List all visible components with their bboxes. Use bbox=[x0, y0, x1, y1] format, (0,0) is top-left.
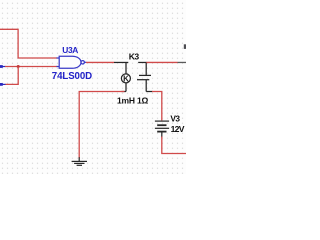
relay K3 contact bbox=[137, 62, 153, 91]
wire: net to upper gate input bbox=[0, 29, 57, 58]
wire: branch down to second pin bbox=[5, 67, 18, 85]
svg-text:K: K bbox=[123, 75, 129, 84]
svg-text:K3: K3 bbox=[129, 52, 140, 62]
battery V3 bbox=[155, 121, 169, 137]
wire: contact bottom to battery top bbox=[152, 92, 162, 121]
svg-text:1mH 1Ω: 1mH 1Ω bbox=[117, 96, 149, 106]
connector pin (left edge, upper) bbox=[0, 65, 6, 68]
wire: net to lower gate input bbox=[5, 66, 57, 68]
wire: coil top net continues to right edge bbox=[146, 61, 177, 63]
clipped component at right edge (gray) bbox=[178, 44, 187, 62]
ground bbox=[72, 157, 87, 165]
svg-text:74LS00D: 74LS00D bbox=[52, 71, 92, 82]
svg-text:V3: V3 bbox=[170, 114, 180, 124]
svg-text:U3A: U3A bbox=[62, 45, 78, 55]
connector pin (left edge, lower) bbox=[0, 83, 6, 86]
svg-text:12V: 12V bbox=[171, 124, 185, 134]
wire: coil bottom to ground bbox=[79, 92, 124, 159]
junction bbox=[17, 65, 20, 68]
wire: battery bottom exits right bbox=[162, 137, 186, 154]
NAND gate U3A (74LS00D) bbox=[57, 56, 87, 68]
relay K3 coil bbox=[114, 62, 130, 91]
wire: gate output to relay coil bbox=[86, 61, 114, 63]
